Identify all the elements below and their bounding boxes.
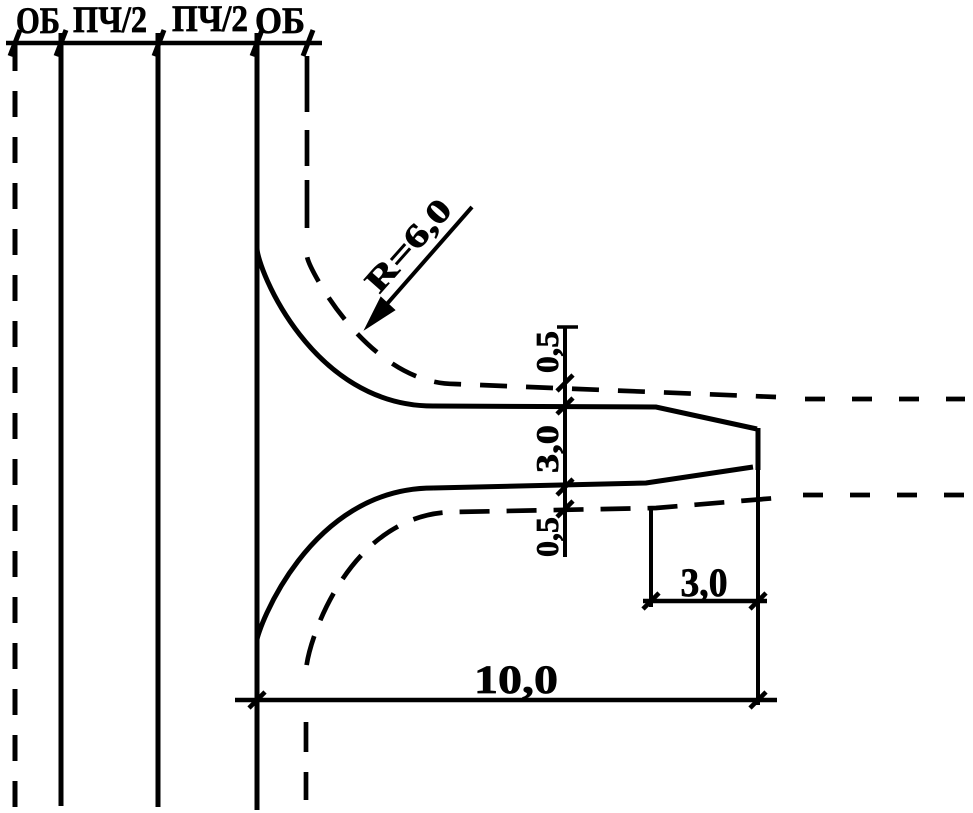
svg-text:0,5: 0,5: [529, 331, 565, 373]
bottom shoulder dashed vertical segment: [304, 722, 309, 800]
side road end bar: [756, 428, 761, 470]
svg-text:0,5: 0,5: [529, 517, 565, 557]
extension line at side road end: [756, 470, 760, 705]
svg-text:ОБ: ОБ: [255, 1, 305, 42]
tick left of 10,0: [249, 692, 265, 708]
radius leader line: [372, 207, 472, 321]
dimension line 10,0: [235, 698, 777, 703]
tick at top road edge crossing: [557, 398, 573, 414]
tick at OB-right edge: [303, 30, 313, 56]
vertical dimension line for 0,5 3,0 0,5: [563, 327, 567, 557]
top shoulder dashed curve and line: [307, 256, 776, 397]
svg-text:3,0: 3,0: [529, 425, 565, 473]
extension line for 3,0 dimension left: [649, 508, 653, 607]
top cap of vertical dimension line: [557, 325, 578, 329]
svg-text:3,0: 3,0: [681, 560, 728, 605]
bottom flare curve solid R=6: [257, 488, 433, 640]
tick at bottom dashed shoulder crossing: [557, 501, 573, 517]
tick right of 3,0: [750, 593, 766, 609]
svg-text:ПЧ/2: ПЧ/2: [73, 0, 147, 41]
right carriageway edge solid vertical line: [255, 33, 260, 810]
bottom shoulder dashed curve and line: [306, 498, 776, 672]
radius arrow head: [366, 298, 394, 328]
tick left of 3,0: [643, 593, 659, 609]
bottom shoulder dashed line far right: [803, 493, 965, 498]
road centerline solid vertical line: [156, 33, 161, 807]
top flare curve solid R=6: [257, 248, 433, 406]
left carriageway edge solid vertical line: [59, 33, 64, 806]
tick at carriageway right edge: [252, 30, 262, 56]
tick at road centerline: [154, 30, 164, 56]
top shoulder dashed line far right: [805, 397, 965, 402]
top dimension line: [6, 41, 322, 46]
side road bottom edge solid: [433, 467, 753, 488]
tick right of 10,0: [750, 692, 766, 708]
tick at carriageway left edge: [56, 30, 66, 56]
tick at OB-left edge: [10, 30, 20, 56]
svg-text:ПЧ/2: ПЧ/2: [172, 0, 248, 40]
svg-text:10,0: 10,0: [474, 657, 558, 702]
right shoulder dashed vertical line top segment: [305, 56, 310, 228]
left shoulder edge dashed vertical line: [13, 45, 18, 810]
tick at bottom road edge crossing: [557, 479, 573, 495]
svg-text:R=6,0: R=6,0: [358, 192, 459, 300]
dimension line 3,0: [643, 599, 767, 604]
side road top edge solid: [433, 406, 757, 429]
svg-text:ОБ: ОБ: [16, 1, 60, 42]
tick at top dashed shoulder crossing: [557, 375, 573, 391]
